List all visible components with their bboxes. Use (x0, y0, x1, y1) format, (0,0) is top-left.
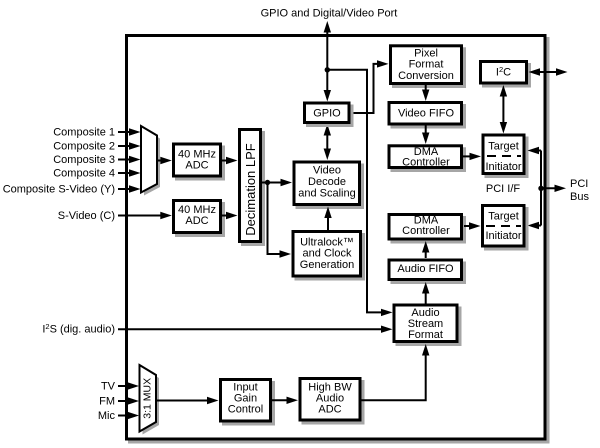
svg-text:Composite 2: Composite 2 (53, 141, 115, 153)
wire: PCI line stub to T/I 1 (528, 147, 542, 154)
wire: IGC to High BW Audio ADC (272, 397, 298, 404)
wire: ADC2 to Decimation LPF (222, 212, 238, 219)
wire: junction to Audio Stream Format (down the middle) (327, 70, 392, 316)
wire: PCI line stub to T/I 2 (528, 222, 542, 229)
wire: composite 4 input (118, 169, 141, 176)
svg-text:Conversion: Conversion (398, 70, 454, 82)
svg-text:PCI: PCI (570, 178, 588, 190)
svg-text:Target: Target (488, 140, 519, 152)
block: Pixel Format Conversion (391, 46, 467, 88)
wire: FM input (118, 397, 139, 404)
block: Target/Initiator 2 (483, 206, 529, 251)
svg-text:Decimation LPF: Decimation LPF (243, 143, 258, 236)
svg-text:ADC: ADC (185, 215, 208, 227)
svg-text:TV: TV (101, 381, 116, 393)
wire: DMA1 to Target/Initiator 1 (463, 153, 481, 160)
wire: composite 3 input (118, 156, 141, 163)
wire: S-Video (C) input to ADC2 (118, 212, 172, 219)
svg-text:Composite S-Video (Y): Composite S-Video (Y) (3, 184, 115, 196)
wire: PFC to Video FIFO (422, 85, 429, 101)
svg-text:Target: Target (488, 211, 519, 223)
wire: DMA2 to Target/Initiator 2 (464, 222, 481, 229)
svg-text:Mic: Mic (98, 410, 116, 422)
svg-text:PCI I/F: PCI I/F (486, 183, 521, 195)
block: DMA Controller (audio) (389, 214, 466, 243)
wire: PCI bus arrow out (541, 185, 566, 192)
audio input mux (trapezoid 3:1 MUX) (140, 365, 160, 435)
video input mux (trapezoid) (141, 126, 160, 196)
wire: Mic input (118, 412, 139, 419)
svg-text:Control: Control (228, 403, 263, 415)
wire: GPIO to Video Decode double arrow (324, 124, 331, 160)
svg-text:ADC: ADC (185, 160, 208, 172)
svg-text:Initiator: Initiator (485, 161, 521, 173)
wire: I2S input to ASF (118, 326, 393, 333)
svg-text:Initiator: Initiator (485, 230, 521, 242)
junction dot PCI (538, 186, 543, 191)
svg-text:Audio FIFO: Audio FIFO (397, 263, 454, 275)
svg-text:FM: FM (99, 396, 115, 408)
svg-text:Controller: Controller (402, 156, 450, 168)
junction dot after LPF (265, 180, 270, 185)
svg-text:Format: Format (409, 59, 444, 71)
svg-text:Composite 1: Composite 1 (53, 127, 115, 139)
wire: I2C to Target/Initiator 1 (double arrow) (500, 85, 507, 134)
svg-text:Video FIFO: Video FIFO (398, 107, 454, 119)
svg-text:I2C: I2C (496, 65, 511, 79)
block: I2C (481, 62, 532, 88)
wire: GPIO/Digital video port vertical (324, 21, 331, 102)
wire: Audio FIFO to DMA2 (422, 241, 429, 258)
svg-text:Bus: Bus (570, 191, 589, 203)
block: DMA Controller (video) (389, 146, 466, 172)
svg-text:Controller: Controller (402, 225, 450, 237)
block: Ultralock and Clock Generation (293, 232, 365, 281)
block: GPIO (305, 103, 354, 127)
block: Target/Initiator 1 (483, 135, 529, 178)
svg-text:I2S (dig. audio): I2S (dig. audio) (42, 322, 115, 336)
svg-text:Composite 4: Composite 4 (53, 168, 115, 180)
wire: composite S-Video (Y) input (118, 185, 141, 192)
svg-text:3:1 MUX: 3:1 MUX (141, 378, 153, 419)
svg-text:Pixel: Pixel (414, 47, 438, 59)
wire: ASF to Audio FIFO (422, 282, 429, 304)
svg-text:GPIO and Digital/Video Port: GPIO and Digital/Video Port (261, 8, 398, 20)
wire: I2C to external (double arrow) (529, 68, 568, 75)
wire: Ultralock to Video Decode (324, 207, 331, 231)
wire: Video FIFO to DMA Controller (422, 126, 429, 145)
wire: TV input (118, 382, 139, 389)
svg-text:GPIO: GPIO (313, 108, 341, 120)
wire: High BW ADC to ASF bottom (362, 344, 430, 400)
wire: audio mux output to Input Gain Control (156, 397, 219, 404)
svg-text:Format: Format (408, 329, 443, 341)
chip outer boundary (127, 36, 550, 444)
junction dot at GPIO port (325, 67, 330, 72)
wire: branch down to Ultralock (268, 183, 292, 258)
block: 40 MHz ADC (video 1) (174, 144, 226, 181)
wire: composite 1 input (118, 128, 141, 135)
block: Audio Stream Format (394, 305, 462, 346)
wire: composite 2 input (118, 142, 141, 149)
wire: LPF to Video Decode (262, 179, 292, 186)
block: Video FIFO (389, 103, 466, 129)
wire: video mux output to ADC1 (157, 157, 172, 164)
svg-text:and Clock: and Clock (303, 248, 352, 260)
svg-text:Ultralock™: Ultralock™ (300, 236, 354, 248)
svg-text:S-Video (C): S-Video (C) (58, 210, 115, 222)
svg-text:Composite 3: Composite 3 (53, 154, 115, 166)
svg-text:Decode: Decode (308, 176, 346, 188)
block: High BW Audio ADC (300, 379, 365, 425)
block: Audio FIFO (389, 260, 466, 284)
svg-text:and Scaling: and Scaling (298, 187, 356, 199)
block: Input Gain Control (221, 380, 276, 426)
svg-text:Generation: Generation (300, 259, 354, 271)
block: Decimation LPF (240, 130, 266, 247)
wire: PCI vertical line (540, 151, 542, 226)
svg-text:ADC: ADC (318, 403, 341, 415)
block: 40 MHz ADC (video 2) (174, 201, 226, 238)
wire: ADC1 to Decimation LPF (222, 157, 238, 164)
wire: GPIO right to Pixel Format Conversion (351, 60, 389, 113)
block: Video Decode and Scaling (294, 162, 364, 209)
svg-text:Video: Video (313, 165, 341, 177)
